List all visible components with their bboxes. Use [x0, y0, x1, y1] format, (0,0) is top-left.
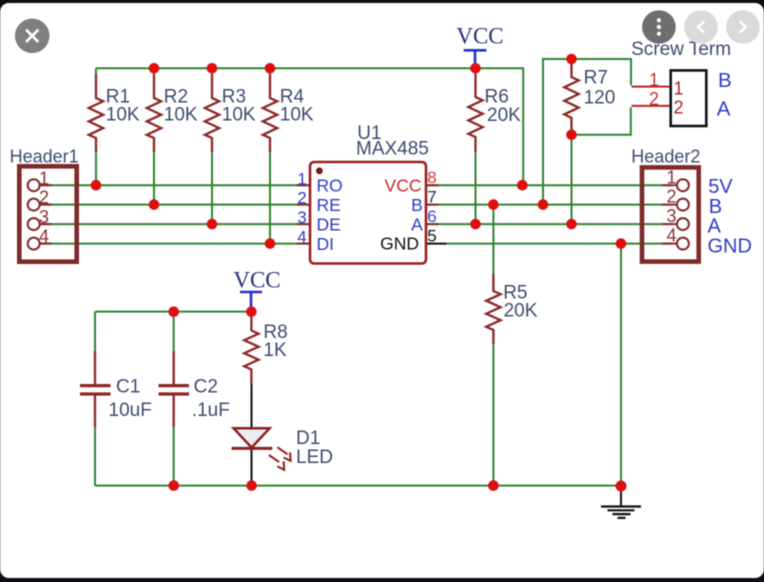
svg-text:10K: 10K: [106, 104, 140, 125]
svg-text:C2: C2: [194, 376, 218, 397]
svg-text:2: 2: [649, 89, 659, 109]
svg-text:1: 1: [297, 169, 306, 188]
svg-text:20K: 20K: [487, 105, 521, 126]
svg-text:DE: DE: [317, 215, 341, 235]
svg-text:B: B: [709, 196, 722, 218]
svg-text:RE: RE: [317, 195, 341, 215]
svg-text:GND: GND: [708, 235, 752, 257]
svg-text:VCC: VCC: [385, 176, 422, 196]
svg-text:B: B: [411, 195, 423, 215]
svg-text:LED: LED: [296, 447, 333, 468]
svg-text:4: 4: [39, 227, 49, 247]
svg-text:1K: 1K: [263, 340, 287, 361]
svg-text:10K: 10K: [164, 104, 198, 125]
svg-text:VCC: VCC: [456, 24, 503, 49]
svg-text:B: B: [718, 69, 732, 92]
svg-text:5: 5: [427, 226, 436, 245]
svg-text:2: 2: [666, 187, 676, 207]
svg-text:7: 7: [427, 187, 436, 206]
svg-text:2: 2: [297, 189, 306, 208]
svg-text:GND: GND: [380, 233, 419, 253]
svg-text:10uF: 10uF: [109, 400, 152, 421]
svg-text:A: A: [411, 215, 423, 235]
svg-text:3: 3: [297, 208, 306, 227]
svg-text:20K: 20K: [504, 301, 538, 322]
svg-text:A: A: [708, 216, 722, 238]
svg-text:3: 3: [39, 207, 49, 227]
svg-text:2: 2: [39, 188, 49, 208]
svg-text:Header2: Header2: [631, 147, 700, 167]
svg-text:8: 8: [427, 168, 436, 187]
svg-text:R7: R7: [584, 68, 608, 89]
svg-text:D1: D1: [296, 428, 320, 449]
svg-text:10K: 10K: [222, 104, 256, 125]
svg-text:4: 4: [297, 228, 306, 247]
svg-text:2: 2: [673, 98, 683, 118]
svg-text:1: 1: [649, 70, 659, 90]
svg-text:1: 1: [666, 167, 676, 187]
svg-text:VCC: VCC: [233, 268, 280, 293]
svg-text:DI: DI: [317, 234, 335, 254]
svg-text:1: 1: [39, 168, 49, 188]
svg-text:Header1: Header1: [10, 147, 79, 167]
svg-text:1: 1: [673, 79, 683, 99]
svg-text:4: 4: [666, 226, 676, 246]
svg-text:120: 120: [584, 88, 616, 109]
svg-text:A: A: [717, 97, 731, 120]
svg-text:6: 6: [427, 207, 436, 226]
svg-text:3: 3: [666, 206, 676, 226]
svg-text:C1: C1: [116, 376, 140, 397]
svg-text:5V: 5V: [708, 176, 733, 198]
svg-text:MAX485: MAX485: [356, 139, 429, 160]
svg-text:.1uF: .1uF: [192, 400, 230, 421]
svg-text:RO: RO: [317, 176, 343, 196]
svg-text:10K: 10K: [280, 104, 314, 125]
svg-text:Screw Term: Screw Term: [631, 39, 731, 60]
